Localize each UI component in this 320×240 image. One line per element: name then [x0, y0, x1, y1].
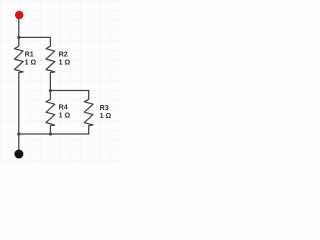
svg-text:1 Ω: 1 Ω: [100, 112, 112, 120]
resistor R1: [14, 37, 23, 134]
svg-text:1 Ω: 1 Ω: [59, 59, 71, 67]
wire: middle rail (node C): [50, 90, 88, 92]
junction at node B (R1 / bottom rail): [17, 132, 20, 135]
junction at node A (top rail / R1): [17, 36, 20, 39]
resistor R2: [46, 37, 55, 90]
node dot: black ground terminal (bottom): [14, 150, 23, 159]
junction at node C (R2 / R4 / middle rail): [49, 89, 52, 92]
svg-text:1 Ω: 1 Ω: [59, 112, 71, 120]
wire: bottom rail (node B): [19, 133, 89, 135]
wire: from bottom rail down to ground dot: [18, 134, 20, 150]
svg-text:R1: R1: [25, 51, 34, 59]
svg-text:1 Ω: 1 Ω: [25, 59, 37, 67]
svg-text:R3: R3: [100, 104, 109, 112]
resistor R4: [46, 91, 55, 135]
junction at node B (R4 / bottom rail): [49, 132, 52, 135]
node dot: red probe terminal (top): [15, 11, 23, 19]
svg-text:R2: R2: [59, 51, 68, 59]
resistor R3: [84, 91, 93, 135]
wire: top rail (node A): [19, 36, 51, 38]
svg-text:R4: R4: [59, 104, 68, 112]
wire: from node V1 dot down to top rail: [18, 17, 20, 37]
